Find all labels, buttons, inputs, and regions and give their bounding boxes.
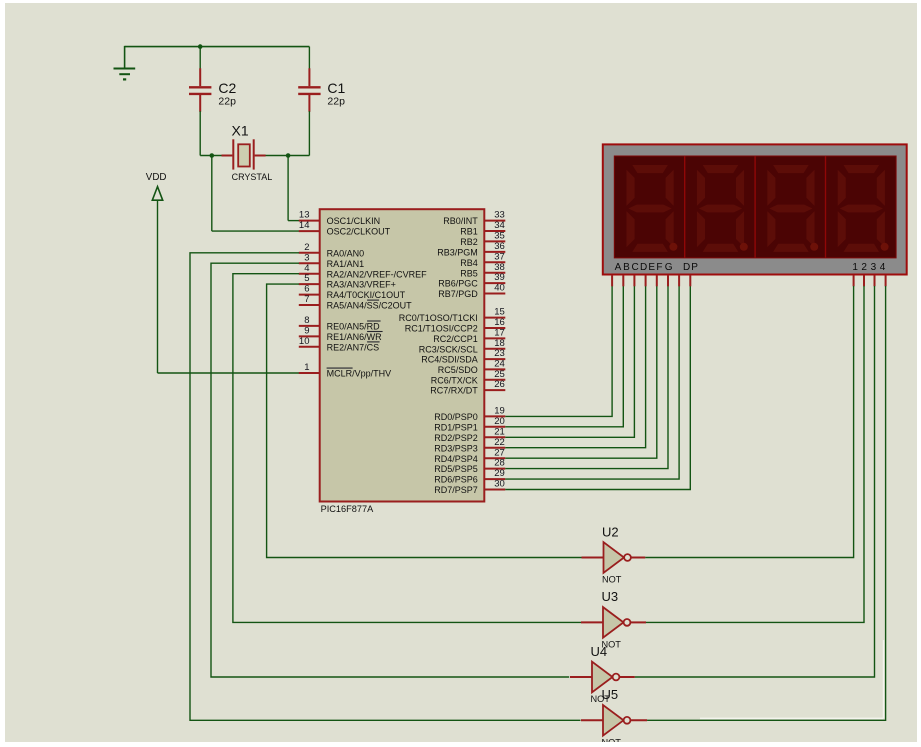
- svg-text:RA4/T0CKI/C1OUT: RA4/T0CKI/C1OUT: [327, 290, 406, 300]
- pin 1 MCLR/Vpp/THV: [299, 372, 320, 374]
- microcontroller U1 PIC16F877A body: [320, 209, 485, 501]
- wire: crystal row right segment: [265, 155, 309, 157]
- pin 29 RD6/PSP6: [484, 478, 505, 480]
- pin 35 RB2: [484, 240, 505, 242]
- svg-text:RB0/INT: RB0/INT: [443, 216, 478, 226]
- svg-text:D: D: [683, 262, 690, 273]
- display digit 4 (all segments off): [838, 165, 889, 252]
- svg-text:U3: U3: [602, 589, 619, 604]
- svg-text:RA5/AN4/SS/C2OUT: RA5/AN4/SS/C2OUT: [327, 301, 413, 311]
- inverter U4: [570, 676, 592, 678]
- svg-text:RC4/SDI/SDA: RC4/SDI/SDA: [421, 355, 478, 365]
- svg-text:33: 33: [494, 210, 505, 221]
- svg-text:40: 40: [494, 283, 505, 294]
- wire: RA1 to U4: [211, 263, 569, 677]
- wire: U2 output to display: [631, 557, 645, 559]
- svg-text:16: 16: [494, 317, 505, 328]
- display DS1 7SEG-MPX4 frame: [603, 144, 907, 274]
- svg-text:NOT: NOT: [602, 737, 622, 742]
- svg-text:CRYSTAL: CRYSTAL: [232, 172, 273, 182]
- sheet boundary corner: [883, 640, 885, 718]
- svg-text:3: 3: [871, 262, 877, 273]
- wire: RD0 to display A: [505, 286, 612, 416]
- svg-text:U4: U4: [591, 644, 608, 659]
- pin 22 RD3/PSP3: [484, 447, 505, 449]
- svg-text:9: 9: [304, 326, 309, 337]
- svg-text:2: 2: [304, 242, 309, 253]
- pin 15 RC0/T1OSO/T1CKI: [484, 317, 505, 319]
- svg-text:38: 38: [494, 262, 505, 273]
- wire: RD4 to display E: [505, 286, 657, 458]
- svg-text:35: 35: [494, 231, 505, 242]
- wire: ground stub: [124, 46, 126, 68]
- capacitor C1: [308, 68, 310, 86]
- svg-text:28: 28: [494, 458, 505, 469]
- svg-text:C: C: [631, 262, 638, 273]
- svg-text:5: 5: [304, 273, 309, 284]
- pin 23 RC4/SDI/SDA: [484, 358, 505, 360]
- display digit 3 (all segments off): [767, 165, 818, 252]
- wire: RD7 to display DP: [505, 286, 690, 490]
- display pins 1-4: [853, 275, 855, 286]
- svg-text:RD3/PSP3: RD3/PSP3: [434, 443, 478, 453]
- node A: crystal left junction: [210, 153, 215, 158]
- svg-text:4: 4: [304, 263, 309, 274]
- pin 7 RA5/AN4/SS/C2OUT: [299, 304, 320, 306]
- svg-text:1: 1: [304, 362, 309, 373]
- wire: U5 output to display: [631, 719, 648, 721]
- pin 5 RA3/AN3/VREF+: [299, 283, 320, 285]
- svg-text:8: 8: [304, 315, 309, 326]
- svg-text:RD6/PSP6: RD6/PSP6: [434, 475, 478, 485]
- svg-text:15: 15: [494, 307, 505, 318]
- ground: [114, 68, 136, 70]
- wire: RA0 to U5: [190, 253, 581, 721]
- svg-text:X1: X1: [232, 123, 249, 139]
- wire: right node down to OSC1 pin 13: [287, 156, 289, 221]
- svg-text:RE0/AN5/RD: RE0/AN5/RD: [327, 322, 381, 332]
- pin 10 RE2/AN7/CS: [299, 346, 320, 348]
- svg-text:18: 18: [494, 338, 505, 349]
- pin 39 RB6/PGC: [484, 282, 505, 284]
- pin 4 RA2/AN2/VREF-/CVREF: [299, 273, 320, 275]
- pin 24 RC5/SDO: [484, 368, 505, 370]
- display pins A-G,DP: [611, 275, 613, 286]
- svg-text:E: E: [648, 262, 655, 273]
- pin 34 RB1: [484, 230, 505, 232]
- svg-text:RC1/T1OSI/CCP2: RC1/T1OSI/CCP2: [405, 324, 478, 334]
- svg-text:RB4: RB4: [460, 258, 478, 268]
- wire: RD3 to display D: [505, 286, 645, 448]
- capacitor C2: [199, 68, 201, 86]
- inverter U2: [582, 557, 604, 559]
- svg-text:4: 4: [880, 262, 886, 273]
- wire: RA2 to U3: [233, 274, 582, 623]
- wire: RD6 to display G: [505, 286, 679, 479]
- svg-text:RD7/PSP7: RD7/PSP7: [434, 485, 478, 495]
- wire: top rail GND to C1: [125, 46, 310, 48]
- svg-text:MCLR/Vpp/THV: MCLR/Vpp/THV: [327, 369, 392, 379]
- svg-text:B: B: [623, 262, 630, 273]
- pin 14 OSC2/CLKOUT: [299, 230, 320, 232]
- svg-text:RD5/PSP5: RD5/PSP5: [434, 464, 478, 474]
- svg-text:RB5: RB5: [460, 268, 478, 278]
- svg-text:14: 14: [299, 220, 310, 231]
- svg-text:24: 24: [494, 359, 505, 370]
- wire: crystal row left segment: [200, 155, 222, 157]
- pin 17 RC2/CCP1: [484, 337, 505, 339]
- svg-text:RB2: RB2: [460, 237, 478, 247]
- svg-text:RB6/PGC: RB6/PGC: [438, 279, 478, 289]
- svg-text:RA2/AN2/VREF-/CVREF: RA2/AN2/VREF-/CVREF: [327, 269, 428, 279]
- wire: C1 top lead to rail: [308, 47, 310, 69]
- display digit 1 (all segments off): [627, 165, 678, 252]
- svg-text:RA0/AN0: RA0/AN0: [327, 248, 365, 258]
- display digit panel: [614, 156, 896, 258]
- display digit divider 1: [684, 156, 686, 258]
- wire: U4 output to display: [620, 676, 635, 678]
- pin 18 RC3/SCK/SCL: [484, 348, 505, 350]
- svg-text:F: F: [656, 262, 662, 273]
- svg-text:RD4/PSP4: RD4/PSP4: [434, 454, 478, 464]
- svg-text:U5: U5: [602, 687, 619, 702]
- svg-text:RC6/TX/CK: RC6/TX/CK: [431, 375, 478, 385]
- svg-text:A: A: [615, 262, 622, 273]
- pin 21 RD2/PSP2: [484, 436, 505, 438]
- svg-text:P: P: [691, 262, 698, 273]
- svg-text:19: 19: [494, 406, 505, 417]
- svg-text:20: 20: [494, 416, 505, 427]
- pin 3 RA1/AN1: [299, 262, 320, 264]
- svg-text:30: 30: [494, 479, 505, 490]
- svg-text:RC7/RX/DT: RC7/RX/DT: [430, 386, 478, 396]
- svg-text:VDD: VDD: [146, 172, 167, 183]
- svg-text:21: 21: [494, 426, 505, 437]
- svg-text:RC0/T1OSO/T1CKI: RC0/T1OSO/T1CKI: [399, 313, 478, 323]
- wire: VDD down to MCLR pin 1: [157, 200, 159, 373]
- wire: RD2 to display C: [505, 286, 634, 437]
- pin 2 RA0/AN0: [299, 252, 320, 254]
- inverter U3: [581, 621, 603, 623]
- pin 13 OSC1/CLKIN: [299, 220, 320, 222]
- svg-text:C1: C1: [327, 80, 345, 96]
- svg-text:7: 7: [304, 294, 309, 305]
- display digit divider 3: [825, 156, 827, 258]
- pin 37 RB4: [484, 261, 505, 263]
- pin 25 RC6/TX/CK: [484, 379, 505, 381]
- svg-text:36: 36: [494, 241, 505, 252]
- wire: RD1 to display B: [505, 286, 623, 427]
- svg-text:RB1: RB1: [460, 227, 478, 237]
- pin 26 RC7/RX/DT: [484, 389, 505, 391]
- svg-text:29: 29: [494, 468, 505, 479]
- svg-text:22p: 22p: [218, 96, 236, 108]
- inverter U5: [581, 719, 603, 721]
- pin 6 RA4/T0CKI/C1OUT: [299, 294, 320, 296]
- svg-text:D: D: [640, 262, 647, 273]
- svg-text:RE2/AN7/CS: RE2/AN7/CS: [327, 342, 380, 352]
- pin 27 RD4/PSP4: [484, 457, 505, 459]
- wire: left node down to OSC2 pin 14: [211, 156, 213, 232]
- pin 38 RB5: [484, 272, 505, 274]
- wire: U3 output to display: [631, 621, 647, 623]
- svg-text:RD2/PSP2: RD2/PSP2: [434, 433, 478, 443]
- pin 30 RD7/PSP7: [484, 489, 505, 491]
- svg-text:NOT: NOT: [602, 575, 622, 585]
- svg-text:13: 13: [299, 210, 310, 221]
- pin 33 RB0/INT: [484, 220, 505, 222]
- pin 40 RB7/PGD: [484, 293, 505, 295]
- node: junction top rail / C2: [198, 44, 203, 49]
- svg-text:RC3/SCK/SCL: RC3/SCK/SCL: [419, 344, 478, 354]
- wire: C2 bottom to crystal node: [199, 111, 201, 155]
- overline marks on active-low pin names: [367, 299, 379, 301]
- svg-text:RC5/SDO: RC5/SDO: [438, 365, 478, 375]
- svg-text:RA1/AN1: RA1/AN1: [327, 259, 365, 269]
- pin 9 RE1/AN6/WR: [299, 335, 320, 337]
- svg-text:3: 3: [304, 252, 309, 263]
- pin 36 RB3/PGM: [484, 251, 505, 253]
- svg-text:U2: U2: [602, 524, 619, 539]
- pin 8 RE0/AN5/RD: [299, 325, 320, 327]
- svg-text:PIC16F877A: PIC16F877A: [321, 504, 374, 514]
- svg-text:27: 27: [494, 447, 505, 458]
- wire: RA3 to U2: [267, 284, 582, 557]
- svg-text:C2: C2: [218, 80, 236, 96]
- display digit 2 (all segments off): [697, 165, 748, 252]
- svg-text:6: 6: [304, 284, 309, 295]
- svg-text:37: 37: [494, 251, 505, 262]
- svg-text:RB3/PGM: RB3/PGM: [437, 248, 478, 258]
- svg-text:26: 26: [494, 379, 505, 390]
- svg-text:OSC1/CLKIN: OSC1/CLKIN: [327, 216, 381, 226]
- pin 28 RD5/PSP5: [484, 468, 505, 470]
- svg-text:22: 22: [494, 437, 505, 448]
- wire: C2 top lead to rail: [199, 47, 201, 69]
- pin 16 RC1/T1OSI/CCP2: [484, 327, 505, 329]
- svg-text:OSC2/CLKOUT: OSC2/CLKOUT: [327, 227, 391, 237]
- svg-text:2: 2: [861, 262, 867, 273]
- display digit divider 2: [754, 156, 756, 258]
- svg-text:39: 39: [494, 272, 505, 283]
- pin 20 RD1/PSP1: [484, 426, 505, 428]
- svg-text:RE1/AN6/WR: RE1/AN6/WR: [327, 332, 383, 342]
- svg-text:RC2/CCP1: RC2/CCP1: [433, 334, 478, 344]
- wire: RD5 to display F: [505, 286, 668, 469]
- svg-text:10: 10: [299, 336, 310, 347]
- svg-text:G: G: [665, 262, 673, 273]
- node B: crystal right junction: [286, 153, 291, 158]
- svg-text:34: 34: [494, 220, 505, 231]
- svg-text:1: 1: [852, 262, 858, 273]
- wire: C1 bottom to crystal node: [308, 111, 310, 155]
- svg-text:RA3/AN3/VREF+: RA3/AN3/VREF+: [327, 280, 396, 290]
- svg-text:RD1/PSP1: RD1/PSP1: [434, 422, 478, 432]
- pin 19 RD0/PSP0: [484, 415, 505, 417]
- svg-text:22p: 22p: [327, 96, 345, 108]
- svg-text:RD0/PSP0: RD0/PSP0: [434, 412, 478, 422]
- svg-text:RB7/PGD: RB7/PGD: [438, 289, 478, 299]
